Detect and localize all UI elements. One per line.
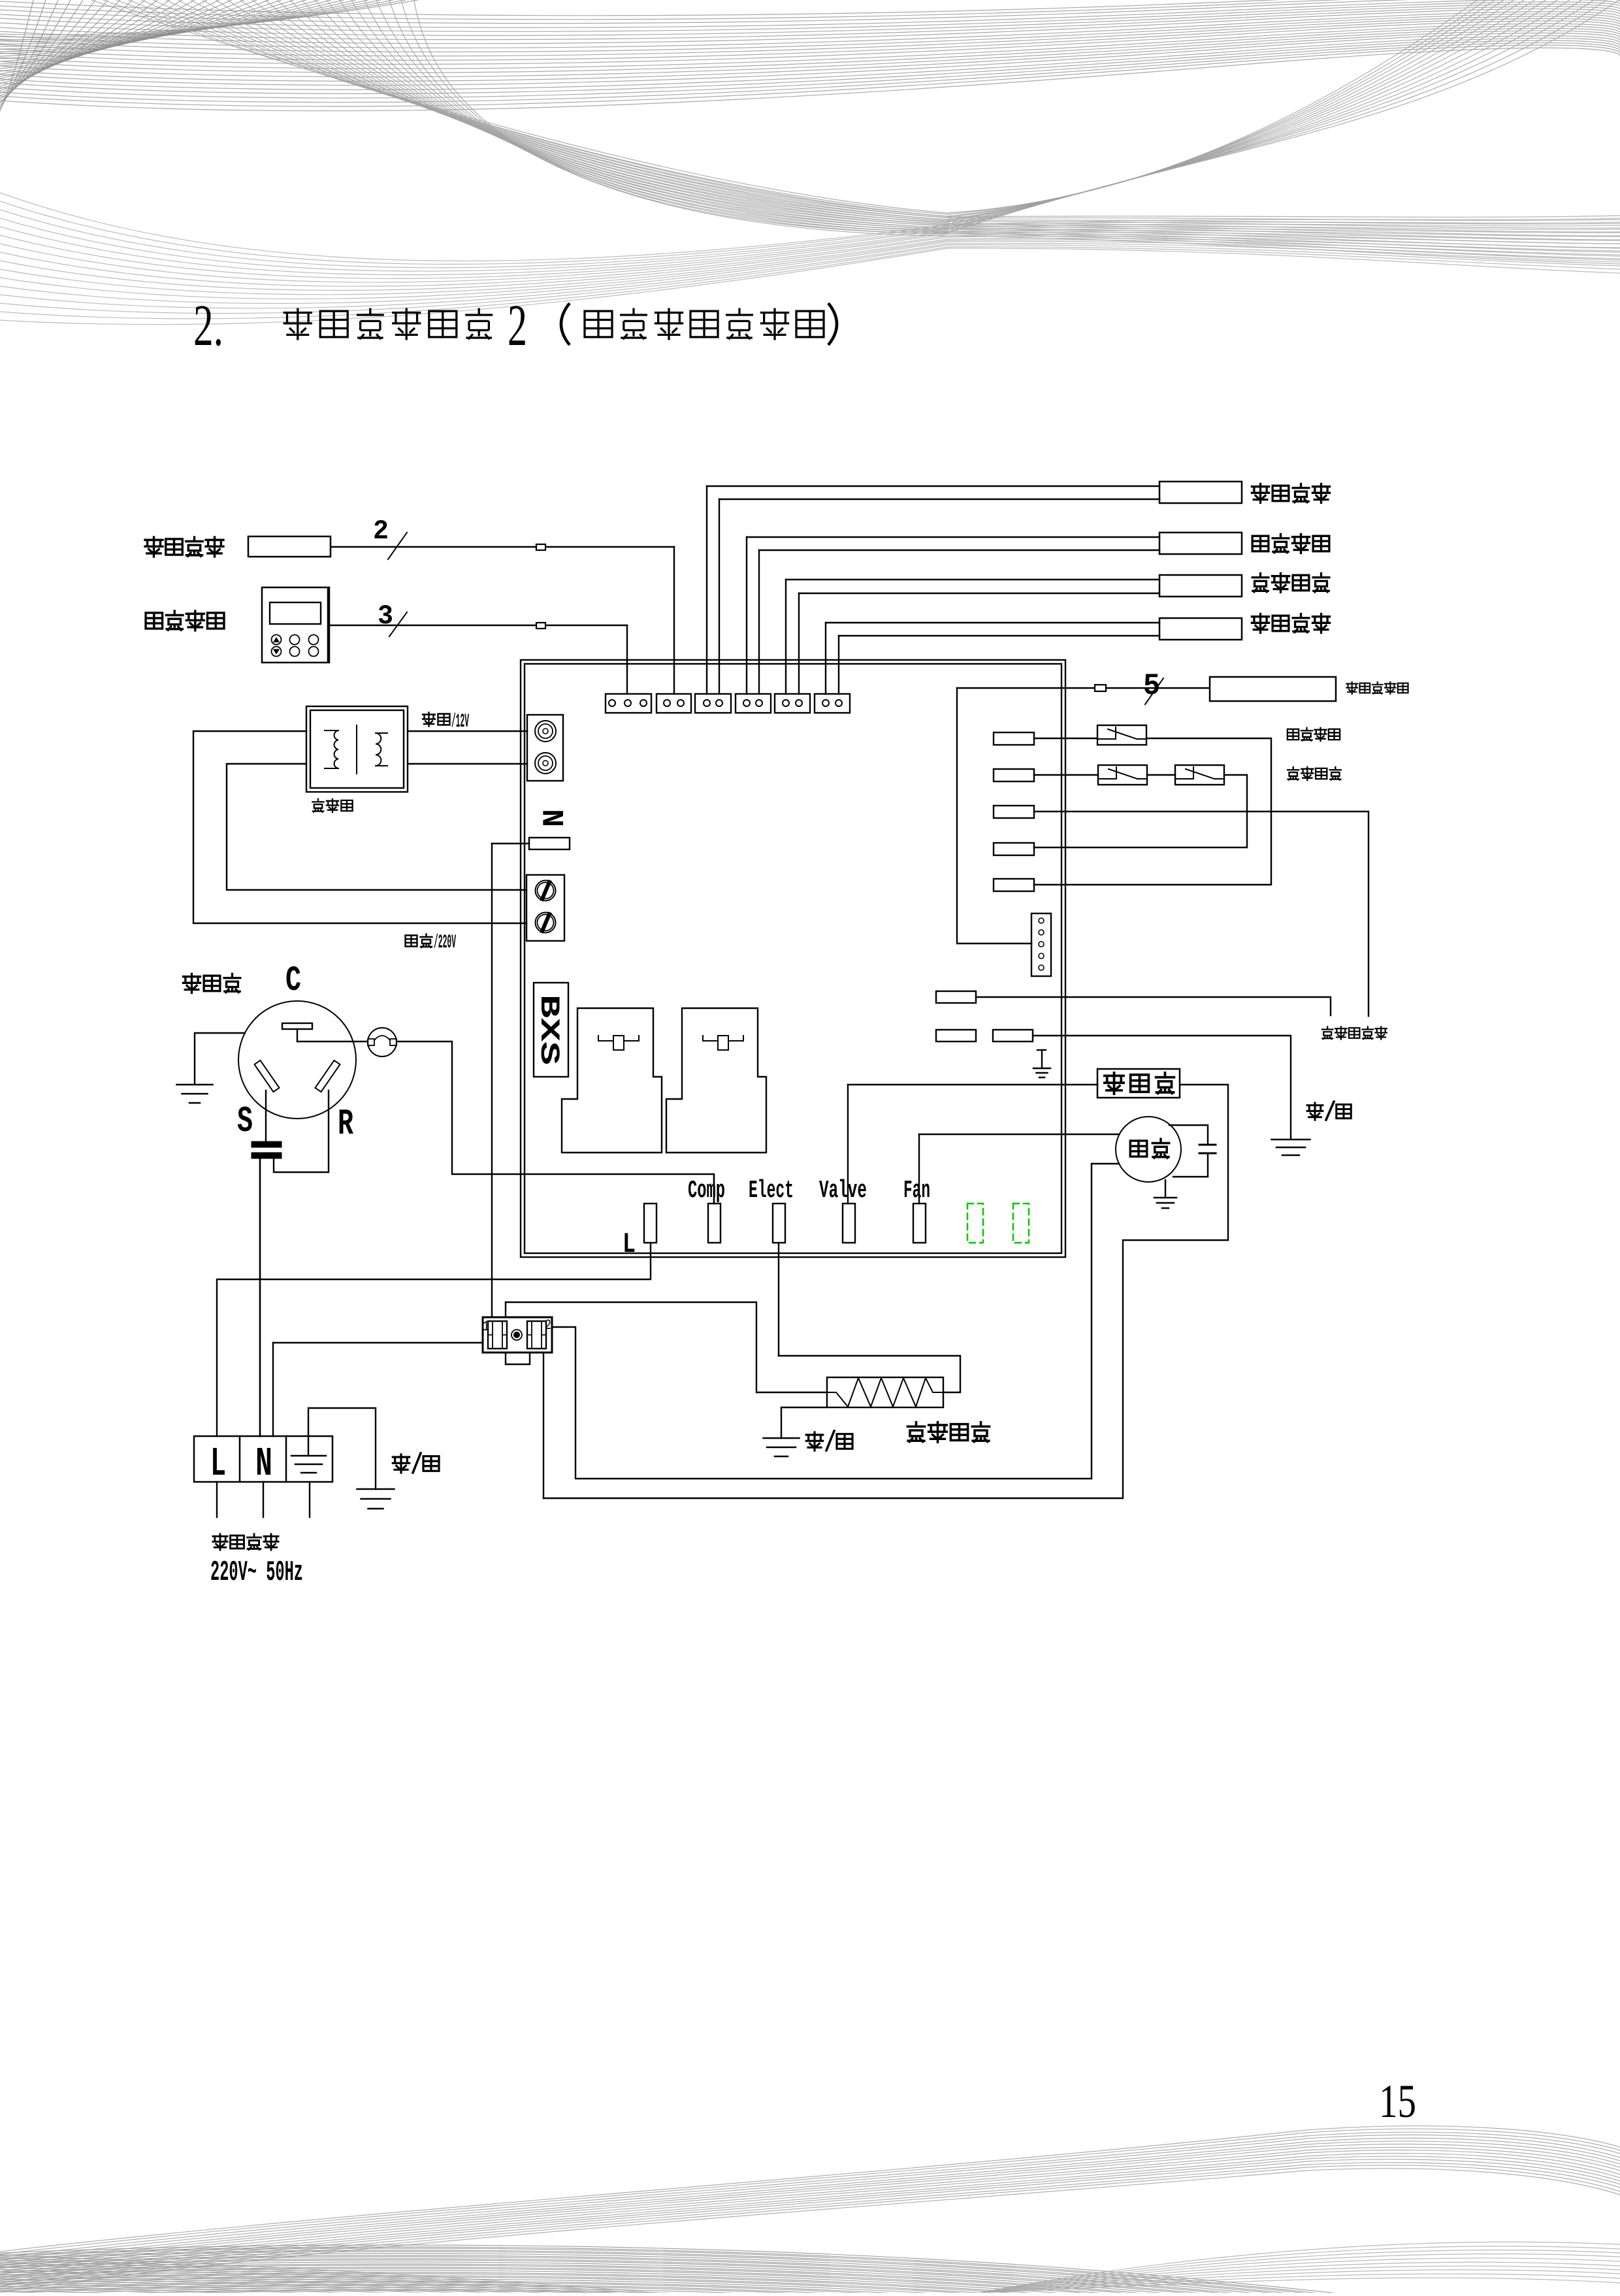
svg-text:BXS: BXS [533,994,564,1065]
svg-text:Valve: Valve [819,1177,867,1205]
svg-text:3: 3 [378,600,393,632]
svg-text:2: 2 [373,516,389,547]
svg-text:Elect: Elect [749,1177,794,1205]
svg-text:Comp: Comp [688,1177,725,1205]
svg-text:R: R [338,1103,353,1145]
svg-text:S: S [237,1100,253,1142]
svg-text:220V~ 50Hz: 220V~ 50Hz [210,1556,303,1589]
svg-text:1: 1 [483,1319,489,1335]
svg-text:C: C [285,961,301,1001]
svg-text:15: 15 [1379,2075,1416,2127]
svg-text:L: L [623,1228,636,1261]
svg-text:N: N [255,1441,272,1487]
svg-text:/220V: /220V [434,932,456,954]
svg-text:L: L [210,1441,226,1487]
svg-text:Fan: Fan [903,1177,930,1205]
svg-text:2.: 2. [193,293,223,358]
svg-text:N: N [538,809,572,827]
svg-text:2: 2 [508,293,527,358]
svg-text:/12V: /12V [451,711,469,733]
svg-text:2: 2 [545,1317,551,1334]
